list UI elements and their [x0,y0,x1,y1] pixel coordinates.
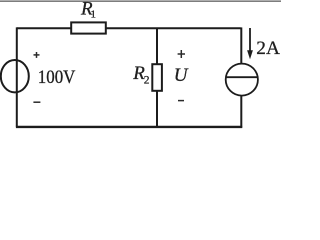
svg-text:1: 1 [91,9,97,21]
svg-text:100V: 100V [38,68,76,88]
svg-text:2: 2 [144,75,150,87]
svg-text:2A: 2A [256,38,280,59]
svg-text:U: U [174,65,189,86]
